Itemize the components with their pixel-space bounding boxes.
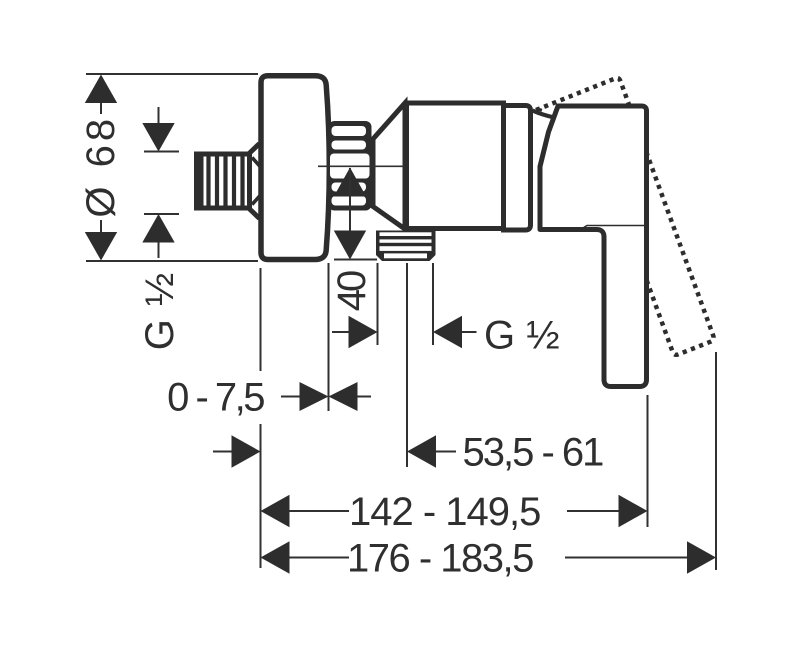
extension line B (escutcheon right, x=328.5) <box>328 263 330 411</box>
dim 40 vertical (x=350) <box>334 168 377 260</box>
svg-text:142 - 149,5: 142 - 149,5 <box>349 490 540 534</box>
dim 0-7,5 butterfly (y=396.5) <box>281 382 371 411</box>
svg-text:Ø 68: Ø 68 <box>79 115 123 218</box>
svg-text:G ½: G ½ <box>484 314 560 358</box>
extension line A (escutcheon left, x=260.5) <box>260 268 262 371</box>
wall nipple (threaded) <box>197 144 262 219</box>
dotted handle outline (alternate position) <box>536 78 714 355</box>
cartridge cap ring <box>504 106 531 231</box>
svg-text:0 - 7,5: 0 - 7,5 <box>167 376 264 420</box>
nipple flare chamfer <box>248 144 260 155</box>
escutcheon (wall plate, side view) <box>261 76 329 260</box>
svg-text:176 - 183,5: 176 - 183,5 <box>347 537 533 581</box>
dim extension bottom (escutcheon bottom, y=261) <box>86 260 258 262</box>
dim G1/2 outlet arrows (y=332) <box>332 316 477 348</box>
dim extension top (escutcheon top, y=74) <box>86 73 258 75</box>
valve body <box>407 103 504 229</box>
svg-text:53,5 - 61: 53,5 - 61 <box>463 431 604 475</box>
extension line (x=647.5) <box>647 395 649 527</box>
dim 53,5-61 (y=451.5) <box>213 435 456 467</box>
union nut (ribbed) <box>329 121 372 211</box>
outlet extension lines <box>377 263 379 345</box>
svg-text:G ½: G ½ <box>138 272 182 351</box>
svg-text:40: 40 <box>330 271 374 311</box>
extension line (x=716) <box>715 352 717 570</box>
dim 142-149,5 (y=511) <box>261 495 648 527</box>
bottom outlet (hose connection) <box>376 231 436 262</box>
dim Ø68 vertical line + arrows <box>85 75 117 261</box>
handle parting line <box>581 226 645 230</box>
dim G1/2 thread vertical (x=158.5) <box>142 107 179 258</box>
cone between nut and body <box>373 103 405 229</box>
dim 176-183,5 (y=557.5) <box>261 541 717 573</box>
centerline through nut/cone <box>318 165 404 167</box>
handle (solid position) <box>540 106 647 387</box>
hub fillet arc <box>533 111 557 119</box>
